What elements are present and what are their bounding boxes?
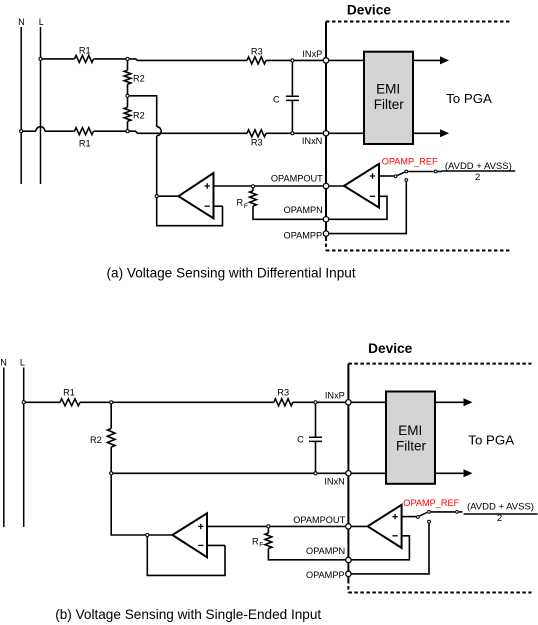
svg-text:R1: R1 [63, 387, 75, 397]
svg-text:To PGA: To PGA [468, 432, 514, 447]
svg-text:2: 2 [497, 513, 502, 524]
svg-text:(b) Voltage Sensing with Singl: (b) Voltage Sensing with Single-Ended In… [55, 607, 321, 622]
svg-text:(a) Voltage Sensing with Diffe: (a) Voltage Sensing with Differential In… [107, 266, 356, 281]
svg-text:OPAMPOUT: OPAMPOUT [271, 173, 323, 183]
svg-text:F: F [259, 542, 263, 549]
svg-text:INxP: INxP [325, 390, 345, 400]
svg-text:N: N [18, 17, 25, 27]
svg-text:R3: R3 [277, 387, 289, 397]
svg-text:R: R [252, 536, 259, 546]
svg-text:L: L [20, 358, 25, 368]
svg-text:R3: R3 [251, 46, 263, 56]
svg-text:C: C [297, 435, 304, 445]
svg-text:OPAMPN: OPAMPN [306, 546, 345, 556]
svg-text:Filter: Filter [374, 97, 405, 112]
svg-text:(AVDD + AVSS): (AVDD + AVSS) [445, 161, 512, 172]
svg-text:EMI: EMI [376, 81, 400, 96]
svg-text:L: L [39, 17, 44, 27]
svg-text:Filter: Filter [396, 439, 427, 454]
svg-text:N: N [0, 358, 7, 368]
svg-text:OPAMPOUT: OPAMPOUT [293, 515, 345, 525]
svg-text:INxN: INxN [324, 477, 344, 487]
svg-text:(AVDD + AVSS): (AVDD + AVSS) [467, 502, 534, 513]
svg-text:INxN: INxN [302, 136, 322, 146]
svg-text:R3: R3 [251, 137, 263, 147]
svg-text:2: 2 [475, 172, 480, 183]
svg-text:R1: R1 [79, 139, 91, 149]
svg-text:Device: Device [368, 341, 413, 356]
svg-text:F: F [244, 203, 248, 210]
svg-text:R1: R1 [79, 45, 91, 55]
svg-text:R2: R2 [133, 74, 145, 84]
svg-text:INxP: INxP [302, 49, 322, 59]
svg-text:OPAMPN: OPAMPN [284, 205, 323, 215]
svg-text:OPAMPP: OPAMPP [306, 570, 345, 580]
svg-text:OPAMP_REF: OPAMP_REF [382, 156, 438, 166]
svg-text:R2: R2 [90, 435, 102, 445]
svg-text:C: C [273, 94, 280, 104]
svg-text:R: R [237, 198, 244, 208]
svg-text:To PGA: To PGA [446, 91, 492, 106]
svg-text:OPAMP_REF: OPAMP_REF [403, 498, 459, 508]
svg-text:Device: Device [347, 3, 392, 18]
svg-text:R2: R2 [133, 110, 145, 120]
svg-text:EMI: EMI [398, 423, 422, 438]
svg-text:OPAMPP: OPAMPP [284, 230, 323, 240]
